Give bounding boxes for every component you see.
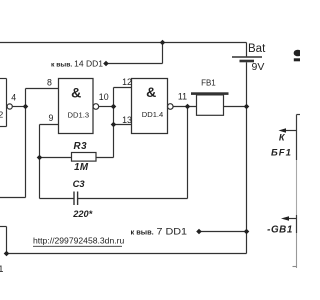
svg-text:11: 11 xyxy=(178,92,187,102)
svg-text:9V: 9V xyxy=(252,61,265,73)
svg-text:к выв.7 DD1: к выв.7 DD1 xyxy=(131,226,188,236)
svg-text:Bat: Bat xyxy=(248,43,266,55)
svg-text:&: & xyxy=(71,84,81,100)
svg-text:220*: 220* xyxy=(72,209,92,219)
svg-text:C3: C3 xyxy=(73,178,86,189)
svg-text:4: 4 xyxy=(11,93,16,103)
svg-text:&: & xyxy=(146,84,156,100)
svg-text:1: 1 xyxy=(0,263,3,274)
svg-text:БF1: БF1 xyxy=(271,148,292,159)
svg-text:2: 2 xyxy=(0,110,4,120)
svg-text:8: 8 xyxy=(47,78,52,88)
svg-text:1M: 1M xyxy=(74,162,89,173)
svg-text:12: 12 xyxy=(122,77,132,87)
svg-text:10: 10 xyxy=(99,92,109,102)
svg-text:13: 13 xyxy=(122,115,132,125)
svg-text:-GB1: -GB1 xyxy=(267,224,293,235)
svg-text:R3: R3 xyxy=(74,141,88,152)
svg-text:FB1: FB1 xyxy=(201,79,216,88)
svg-text:DD1.4: DD1.4 xyxy=(142,110,164,119)
svg-text:9: 9 xyxy=(49,113,54,123)
svg-text:http://299792458.3dn.ru: http://299792458.3dn.ru xyxy=(33,235,124,245)
svg-text:DD1.3: DD1.3 xyxy=(68,111,90,120)
